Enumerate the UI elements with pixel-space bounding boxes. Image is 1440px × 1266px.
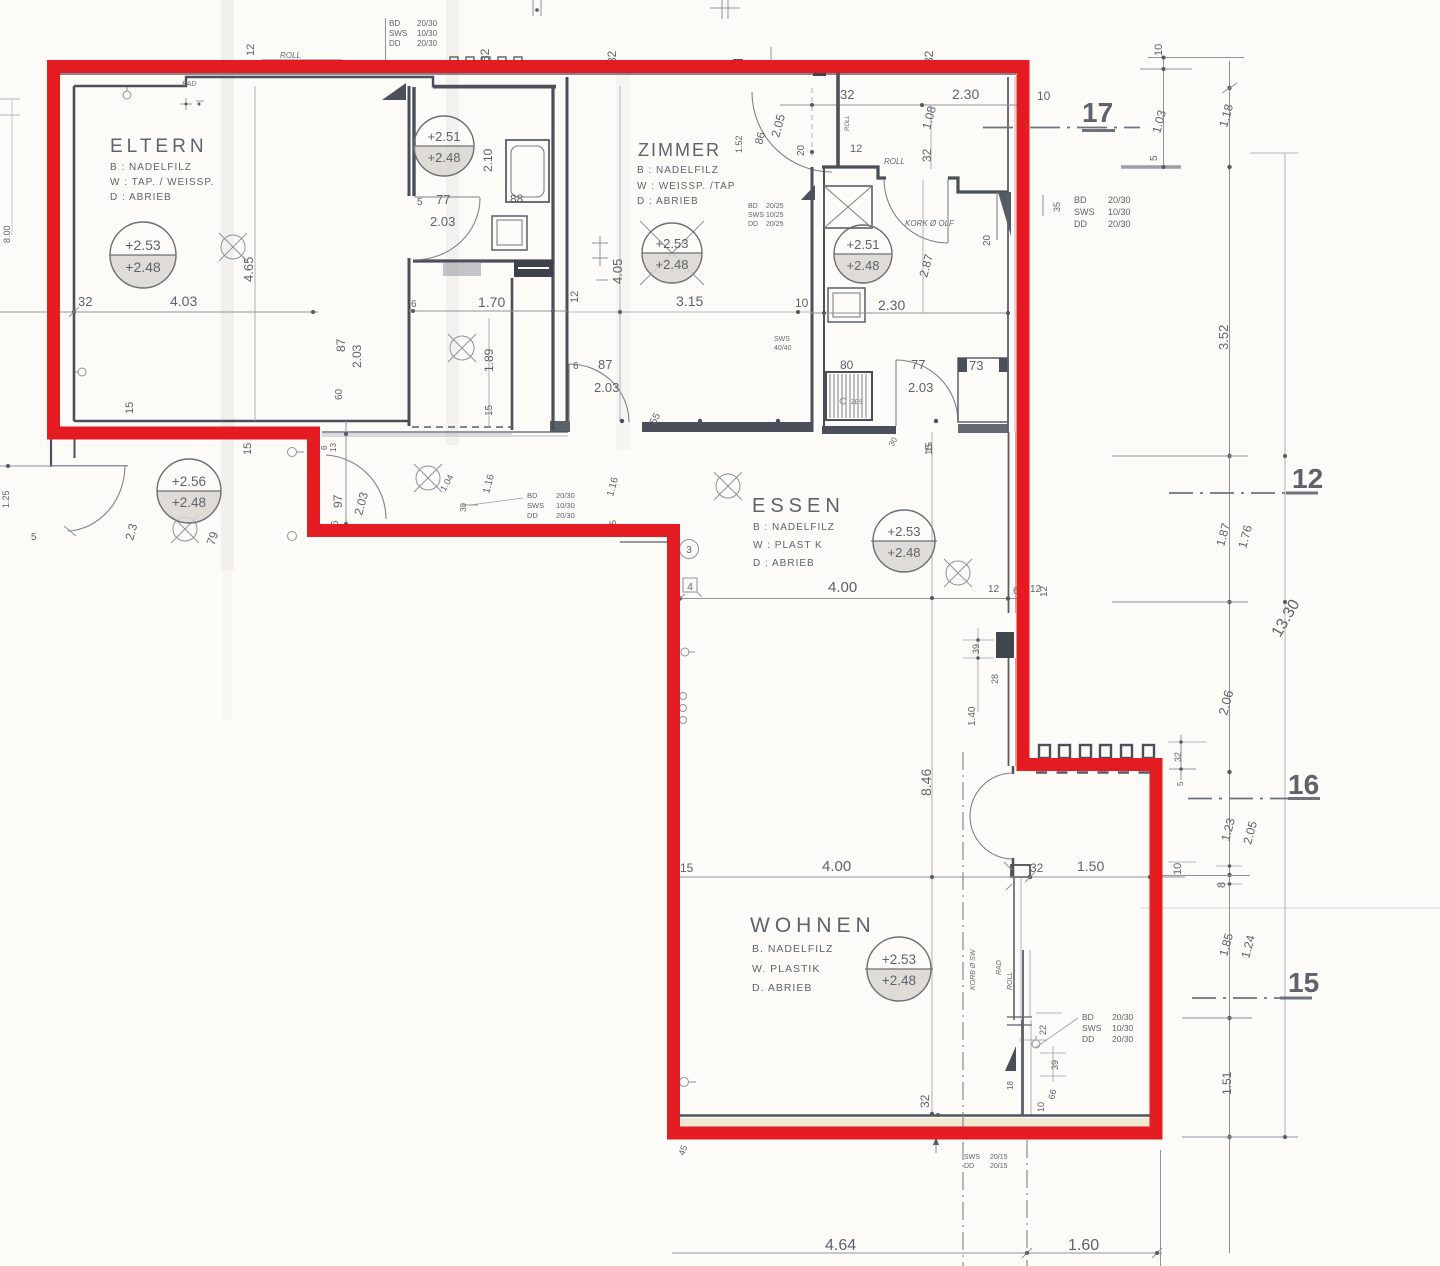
svg-text:32: 32 <box>1173 752 1183 762</box>
svg-text:20/25: 20/25 <box>766 203 784 210</box>
svg-text:87: 87 <box>598 357 612 372</box>
outlet symbols at red step <box>288 448 297 457</box>
window 73 niche <box>958 358 1008 422</box>
svg-text:+2.48: +2.48 <box>882 973 916 988</box>
svg-text:15: 15 <box>1288 967 1319 998</box>
svg-text:B. NADELFILZ: B. NADELFILZ <box>752 943 833 955</box>
svg-text:+2.53: +2.53 <box>888 524 921 539</box>
svg-text:4.64: 4.64 <box>825 1237 856 1254</box>
svg-text:2.30: 2.30 <box>878 297 905 313</box>
svg-text:97: 97 <box>331 494 345 508</box>
outlet WOHNEN left <box>680 1078 689 1087</box>
svg-text:DD: DD <box>964 1163 974 1170</box>
svg-text:39: 39 <box>971 644 981 654</box>
line under red step right of corner <box>620 541 668 543</box>
svg-text:ESSEN: ESSEN <box>752 495 845 517</box>
svg-text:32: 32 <box>840 87 854 102</box>
svg-text:8: 8 <box>1216 882 1228 888</box>
ELTERN right wall lower <box>408 258 411 426</box>
top dim tick line left <box>385 18 387 60</box>
top tick pair left of center <box>532 0 534 16</box>
vent shaft box <box>824 186 872 228</box>
level circle WOHNEN <box>865 937 933 1001</box>
svg-text:12: 12 <box>1292 463 1323 494</box>
svg-text:20/15: 20/15 <box>990 1154 1008 1161</box>
svg-text:15: 15 <box>924 443 935 455</box>
svg-text:B : NADELFILZ: B : NADELFILZ <box>110 162 192 173</box>
svg-text:2.03: 2.03 <box>594 380 619 395</box>
svg-text:4.65: 4.65 <box>241 257 256 282</box>
outlet marks on left red edge of WOHNEN <box>681 648 689 656</box>
svg-text:15: 15 <box>124 402 136 414</box>
wall end cap <box>1011 865 1030 877</box>
ZIMMER width dim <box>567 311 812 313</box>
svg-text:12: 12 <box>245 44 257 56</box>
svg-text:40/40: 40/40 <box>774 345 792 352</box>
svg-text:88: 88 <box>510 192 524 206</box>
level circle ZIMMER with X <box>640 221 704 285</box>
svg-text:D : ABRIEB: D : ABRIEB <box>753 558 815 569</box>
svg-text:BD: BD <box>527 491 538 500</box>
svg-text:10: 10 <box>1172 863 1184 875</box>
svg-text:5: 5 <box>417 197 423 208</box>
svg-text:+2.53: +2.53 <box>882 952 916 967</box>
svg-text:DD: DD <box>748 221 758 228</box>
svg-text:+2.53: +2.53 <box>125 237 161 253</box>
dark wedge left of shaft <box>801 185 815 200</box>
bath BAD top wall <box>433 86 556 89</box>
svg-text:32: 32 <box>1030 861 1044 875</box>
svg-text:SWS: SWS <box>964 1154 980 1161</box>
scan crease band left <box>221 0 234 570</box>
door overlay on red <box>304 470 309 524</box>
kitchen width dim <box>810 312 1010 314</box>
corridor left wall <box>511 278 514 430</box>
window dark block right wall <box>996 632 1014 658</box>
svg-text:1.89: 1.89 <box>482 348 496 372</box>
svg-text:+2.48: +2.48 <box>888 545 921 560</box>
kitchen lobby door arc <box>884 179 948 243</box>
ZIMMER bottom wall band <box>642 422 812 432</box>
bath BAD bottom wall <box>413 259 553 262</box>
svg-text:20/30: 20/30 <box>1108 195 1131 205</box>
svg-text:32: 32 <box>920 148 934 162</box>
ceiling light X circle corridor <box>448 334 476 362</box>
crenellation right dims <box>1180 735 1182 780</box>
svg-text:ROLL: ROLL <box>280 51 301 60</box>
ESSEN upper leader block lines <box>470 498 523 505</box>
kitchen bottom wall band <box>822 426 896 434</box>
bath door arc <box>414 198 480 260</box>
svg-text:ROLL: ROLL <box>884 157 905 166</box>
dots on top section bottom wall <box>620 419 624 423</box>
svg-text:6: 6 <box>573 361 579 372</box>
entry 97 dim <box>345 421 347 526</box>
corridor bottom dashed wall <box>412 426 512 428</box>
svg-text:28: 28 <box>990 674 1000 684</box>
bottom right leader line <box>1035 1018 1078 1048</box>
boxed node 4 <box>683 578 697 592</box>
level circle ELTERN <box>110 222 176 288</box>
dark window wedge bottom right <box>1005 1046 1016 1071</box>
svg-text:BD: BD <box>1074 195 1087 205</box>
kitchen 2.87 dim <box>922 180 924 313</box>
kitchen lobby top wall <box>822 167 886 178</box>
svg-text:W : TAP. / WEISSP.: W : TAP. / WEISSP. <box>110 177 215 188</box>
WOHNEN 8.46 dim <box>931 432 933 1114</box>
corridor to ESSEN door arc <box>326 455 386 519</box>
ZIMMER height dim <box>619 86 621 421</box>
scan crease band at bath wall <box>446 0 459 445</box>
svg-text:1.50: 1.50 <box>1077 858 1104 874</box>
svg-text:2.03: 2.03 <box>908 380 933 395</box>
svg-text:15: 15 <box>680 861 694 875</box>
svg-text:20/30: 20/30 <box>417 39 438 48</box>
svg-text:+2.48: +2.48 <box>847 258 880 273</box>
svg-text:DD: DD <box>1074 219 1087 229</box>
svg-text:32: 32 <box>478 48 492 62</box>
svg-text:12: 12 <box>1039 585 1050 597</box>
svg-text:20: 20 <box>982 234 993 246</box>
circled node 3 <box>680 540 699 559</box>
thin double line below red step <box>322 431 568 433</box>
svg-text:13: 13 <box>329 443 338 452</box>
right outer wall double line top section <box>1007 77 1009 432</box>
svg-text:18: 18 <box>1006 1081 1015 1090</box>
svg-text:D : ABRIEB: D : ABRIEB <box>637 196 699 207</box>
step in right wall <box>1007 1017 1032 1025</box>
svg-text:10: 10 <box>1036 1102 1046 1112</box>
scan crease band middle <box>616 60 630 450</box>
svg-text:16: 16 <box>1288 769 1319 800</box>
svg-text:4.03: 4.03 <box>170 293 197 309</box>
svg-text:W : WEISSP. /TAP: W : WEISSP. /TAP <box>637 181 735 192</box>
wall end tick at 1030,877 <box>1004 862 1012 890</box>
vertical line below red bottom right <box>1160 1150 1162 1266</box>
corridor dim line <box>409 310 567 312</box>
svg-text:35: 35 <box>1052 202 1062 212</box>
svg-text:10: 10 <box>795 296 809 310</box>
svg-text:87: 87 <box>334 338 348 352</box>
dark window wedge right wall <box>998 192 1011 236</box>
svg-text:BD: BD <box>389 19 400 28</box>
outlet symbol ELTERN top <box>123 91 131 99</box>
exterior wall stub below ELTERN <box>50 438 52 467</box>
svg-text:20/15: 20/15 <box>990 1163 1008 1170</box>
ELTERN width dim line <box>0 311 318 313</box>
axis 12 dash-dot <box>1169 492 1318 494</box>
bottom right closing dim <box>1182 1136 1298 1138</box>
kitchen lobby dashed dim <box>811 88 813 160</box>
kitchen lobby door leaf <box>947 179 949 243</box>
svg-text:4.00: 4.00 <box>822 858 851 875</box>
svg-text:30: 30 <box>459 503 468 512</box>
svg-text:B : NADELFILZ: B : NADELFILZ <box>753 522 835 533</box>
axis 15 dash-dot <box>1192 997 1312 999</box>
svg-text:20/30: 20/30 <box>1108 219 1131 229</box>
svg-text:5: 5 <box>1149 155 1160 161</box>
svg-text:ELTERN: ELTERN <box>110 136 208 157</box>
svg-text:W : PLAST K: W : PLAST K <box>753 540 823 551</box>
lobby wall vertical <box>836 72 840 167</box>
lot dash-dot below red bottom <box>1026 1140 1028 1266</box>
lobby wall top stub <box>813 62 826 76</box>
entry door arc bottom left <box>68 465 125 531</box>
svg-text:20/25: 20/25 <box>766 221 784 228</box>
level circle bath left <box>414 116 474 176</box>
svg-text:ROLL: ROLL <box>845 115 851 131</box>
svg-text:+2.51: +2.51 <box>847 237 880 252</box>
svg-text:32: 32 <box>918 1094 932 1108</box>
light X circle small near 1.04 <box>414 464 442 492</box>
svg-text:3.15: 3.15 <box>676 293 703 309</box>
svg-text:15: 15 <box>242 443 254 455</box>
ZIMMER door arc <box>569 364 629 422</box>
shelf block <box>443 262 481 276</box>
svg-text:10: 10 <box>1153 44 1165 56</box>
svg-text:10/30: 10/30 <box>1108 207 1131 217</box>
ZIMMER tick cluster <box>592 236 608 280</box>
svg-text:10/30: 10/30 <box>556 501 575 510</box>
svg-text:20/30: 20/30 <box>556 491 575 500</box>
WOHNEN right wall double line <box>1013 877 1015 1020</box>
ESSEN ceiling X circles <box>714 472 742 500</box>
svg-text:20/30: 20/30 <box>417 19 438 28</box>
svg-text:WOHNEN: WOHNEN <box>750 914 876 937</box>
svg-text:1.40: 1.40 <box>967 706 978 726</box>
ceiling light X circle ELTERN <box>219 233 247 261</box>
right column first dim <box>1163 57 1165 167</box>
svg-text:DD: DD <box>527 511 538 520</box>
faint lot line horizontal <box>1140 907 1440 909</box>
red apartment outline <box>54 67 1157 1134</box>
svg-text:20/30: 20/30 <box>1112 1012 1134 1022</box>
svg-text:BAD: BAD <box>182 81 196 88</box>
svg-text:+2.48: +2.48 <box>656 257 689 272</box>
svg-text:10/25: 10/25 <box>766 212 784 219</box>
svg-text:20: 20 <box>796 144 807 156</box>
svg-text:73: 73 <box>969 358 983 373</box>
svg-text:2.30: 2.30 <box>952 86 979 102</box>
svg-text:B : NADELFILZ: B : NADELFILZ <box>637 165 719 176</box>
svg-text:1.25: 1.25 <box>1 490 11 508</box>
svg-text:KORK Ø OLF: KORK Ø OLF <box>905 219 955 228</box>
ZIMMER lobby door arc <box>752 92 832 172</box>
left edge dim line <box>0 465 128 467</box>
ELTERN right wall upper <box>408 86 411 196</box>
svg-text:ZIMMER: ZIMMER <box>638 140 721 160</box>
svg-text:SWS: SWS <box>527 501 544 510</box>
svg-text:SWS: SWS <box>774 336 790 343</box>
kitchen door arc <box>896 360 958 422</box>
svg-text:15: 15 <box>484 404 495 416</box>
svg-text:2.10: 2.10 <box>481 148 495 172</box>
svg-text:22: 22 <box>1038 1025 1048 1035</box>
small squares top wall <box>450 57 522 65</box>
balcony double door arcs <box>1012 766 1015 774</box>
svg-text:ROLL: ROLL <box>1007 972 1014 990</box>
svg-text:1.60: 1.60 <box>1068 1237 1099 1254</box>
svg-text:4: 4 <box>687 582 693 593</box>
svg-text:SWS: SWS <box>1074 207 1095 217</box>
ELTERN top wall with niche <box>74 77 556 86</box>
svg-text:3.52: 3.52 <box>1216 325 1231 350</box>
kitchen top dim line <box>780 104 1018 106</box>
room ZIMMER left wall <box>566 77 569 421</box>
room ELTERN left wall <box>73 86 76 421</box>
svg-text:SWS: SWS <box>1082 1023 1102 1033</box>
svg-text:D. ABRIEB: D. ABRIEB <box>752 982 812 994</box>
svg-text:8.00: 8.00 <box>2 225 12 243</box>
top tick near 771 <box>770 47 772 70</box>
washer hatched block <box>826 372 872 420</box>
svg-text:ZES: ZES <box>851 400 863 406</box>
top roll underline <box>262 59 342 61</box>
ESSEN width dim <box>673 598 1018 600</box>
svg-text:17: 17 <box>1082 97 1113 128</box>
svg-text:12: 12 <box>850 143 862 155</box>
svg-text:2.03: 2.03 <box>430 214 455 229</box>
right column main dim line <box>1229 61 1231 1253</box>
svg-text:6: 6 <box>411 299 417 310</box>
svg-text:1.51: 1.51 <box>1220 1071 1234 1095</box>
bath door leaf <box>414 196 480 198</box>
svg-text:4.05: 4.05 <box>610 259 625 284</box>
svg-text:+2.48: +2.48 <box>428 150 461 165</box>
outer wall line under top red <box>60 73 1016 75</box>
svg-text:4.00: 4.00 <box>828 579 857 596</box>
vent shaft diagonals <box>824 186 872 228</box>
svg-text:2.03: 2.03 <box>350 344 364 368</box>
svg-text:KORB Ø SW: KORB Ø SW <box>970 948 977 990</box>
ceiling X circle entry <box>171 515 199 543</box>
svg-text:5: 5 <box>31 532 37 543</box>
ZIMMER right wall <box>811 167 814 432</box>
bottom right interior wall lines <box>1022 950 1024 1115</box>
corner piece corridor bottom <box>550 421 570 432</box>
level circle ESSEN <box>871 510 937 572</box>
bath BAD right wall / corridor right wall <box>551 87 554 430</box>
svg-text:RAD: RAD <box>996 960 1003 975</box>
svg-text:20/30: 20/30 <box>1112 1034 1134 1044</box>
svg-text:1.52: 1.52 <box>734 135 744 153</box>
wall line right of red corner at ESSEN top <box>322 433 512 435</box>
svg-text:6: 6 <box>320 445 329 450</box>
svg-text:DD: DD <box>389 39 401 48</box>
svg-text:10: 10 <box>1037 89 1051 103</box>
top-left corner marks <box>0 98 20 100</box>
svg-text:W. PLASTIK: W. PLASTIK <box>752 963 820 975</box>
svg-text:DD: DD <box>1082 1034 1094 1044</box>
tick triangle on top red line <box>733 59 743 70</box>
svg-text:10/30: 10/30 <box>417 29 438 38</box>
svg-text:10/30: 10/30 <box>1112 1023 1134 1033</box>
short dim line 1018 <box>1182 1017 1252 1019</box>
svg-text:60: 60 <box>334 388 345 400</box>
top center double tick <box>721 0 723 19</box>
ELTERN bottom wall <box>74 420 409 422</box>
level circle entry <box>157 459 221 523</box>
svg-text:BD: BD <box>748 203 758 210</box>
kitchen left wall <box>823 167 825 426</box>
cream band above bottom red line <box>676 1118 1154 1128</box>
svg-text:+2.56: +2.56 <box>172 474 206 489</box>
ELTERN height dim line <box>254 86 256 421</box>
svg-text:+2.53: +2.53 <box>656 236 689 251</box>
svg-text:77: 77 <box>436 192 450 207</box>
svg-text:12: 12 <box>988 584 1000 595</box>
bathtub <box>506 140 549 202</box>
window dims right of ESSEN <box>963 639 994 641</box>
svg-text:+2.51: +2.51 <box>428 129 461 144</box>
kitchen counter sink <box>828 288 865 322</box>
lot dash-dot line vertical <box>962 752 964 1266</box>
svg-text:5: 5 <box>1176 781 1185 786</box>
svg-text:39: 39 <box>1050 1060 1060 1070</box>
washbasin counter dark <box>514 260 553 277</box>
axis 17 dash-dot <box>983 127 1140 129</box>
crenellated balcony squares <box>1039 745 1154 758</box>
svg-text:BD: BD <box>1082 1012 1094 1022</box>
svg-text:80: 80 <box>840 358 854 372</box>
svg-text:SWS: SWS <box>748 212 764 219</box>
cross dim lines right <box>1112 455 1248 457</box>
ELTERN ceiling cross marks <box>180 98 204 110</box>
svg-text:SWS: SWS <box>389 29 407 38</box>
WOHNEN bottom wall <box>680 1114 1150 1116</box>
axis 16 dash-dot <box>1188 798 1320 800</box>
outlet symbol ELTERN left <box>78 368 86 376</box>
kitchen door leaf <box>895 360 897 426</box>
svg-text:12: 12 <box>569 291 581 303</box>
svg-text:+2.48: +2.48 <box>125 259 161 275</box>
svg-text:20/30: 20/30 <box>556 511 575 520</box>
bottom dim line <box>672 1252 1162 1254</box>
svg-text:+2.48: +2.48 <box>172 495 206 510</box>
dashes below crenellation <box>1036 771 1160 773</box>
dark wedge at bath top left <box>382 83 406 100</box>
ESSEN right wall double line <box>1008 432 1010 613</box>
svg-text:1.70: 1.70 <box>478 294 505 310</box>
svg-text:8.46: 8.46 <box>918 769 934 796</box>
svg-text:32: 32 <box>78 294 92 309</box>
svg-text:3: 3 <box>686 545 692 556</box>
svg-text:D : ABRIEB: D : ABRIEB <box>110 192 172 203</box>
svg-text:77: 77 <box>911 357 925 372</box>
kitchen 1.08/32 dim <box>930 105 932 169</box>
ZIMMER door leaf <box>568 364 570 422</box>
bottom right small dims <box>1036 1012 1062 1014</box>
corridor 1.89 dim <box>488 318 490 428</box>
WOHNEN top dim line <box>667 876 1185 878</box>
WOHNEN 32 dim bottom <box>936 1113 940 1117</box>
level circle BAD <box>834 225 892 283</box>
bath BAD left wall <box>412 87 415 196</box>
kitchen lobby wall right part <box>948 178 1008 192</box>
13.30 dim line <box>1284 153 1286 1136</box>
ticks at 866-884 <box>1152 875 1250 877</box>
WC <box>492 216 527 250</box>
